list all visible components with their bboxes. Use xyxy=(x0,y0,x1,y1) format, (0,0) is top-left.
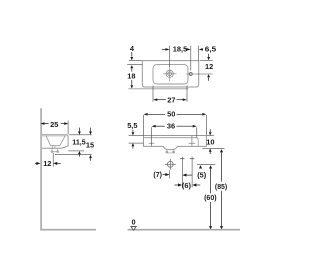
svg-text:18,5: 18,5 xyxy=(173,45,187,54)
svg-text:11,5: 11,5 xyxy=(72,137,85,146)
svg-text:18: 18 xyxy=(127,71,135,80)
svg-text:15: 15 xyxy=(86,141,94,150)
svg-text:27: 27 xyxy=(167,95,175,104)
svg-text:(6): (6) xyxy=(182,181,192,190)
svg-text:0: 0 xyxy=(132,217,136,226)
svg-text:25: 25 xyxy=(50,120,58,129)
svg-text:(60): (60) xyxy=(204,193,217,202)
svg-text:12: 12 xyxy=(43,159,51,168)
svg-text:(85): (85) xyxy=(215,182,228,191)
svg-text:10: 10 xyxy=(206,138,214,147)
svg-text:(5): (5) xyxy=(197,171,207,180)
svg-text:6,5: 6,5 xyxy=(205,45,216,54)
svg-text:(7): (7) xyxy=(153,170,162,179)
svg-text:50: 50 xyxy=(167,110,175,119)
svg-text:12: 12 xyxy=(205,62,213,71)
svg-text:36: 36 xyxy=(167,122,175,131)
svg-text:5,5: 5,5 xyxy=(127,121,137,130)
